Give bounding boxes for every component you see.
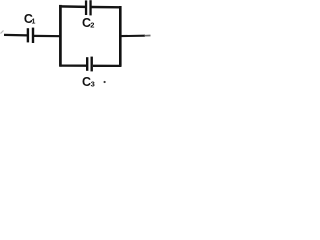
node left junction / left vertical wire of parallel box — [59, 5, 62, 67]
wire C1 to left node — [34, 35, 62, 37]
capacitor C3 — [86, 57, 93, 72]
speck smudge at left edge near input lead — [1, 31, 4, 34]
svg-text:2: 2 — [90, 20, 94, 29]
wire bottom branch left segment — [59, 64, 86, 66]
speck dot right of label C3 — [104, 81, 106, 83]
svg-text:1: 1 — [32, 19, 36, 26]
label C3 — [82, 75, 95, 89]
label C1 — [24, 12, 36, 26]
wire right output lead — [121, 34, 151, 37]
wire bottom branch right segment — [93, 65, 121, 67]
wire top branch right segment — [92, 6, 122, 9]
wire top branch left segment — [59, 5, 85, 8]
svg-text:3: 3 — [91, 80, 95, 89]
capacitor C1 — [27, 28, 35, 43]
node right junction / right vertical wire of parallel box — [119, 6, 122, 67]
capacitor C2 — [85, 0, 92, 15]
wire left lead into C1 — [4, 34, 28, 37]
label C2 — [82, 16, 94, 30]
